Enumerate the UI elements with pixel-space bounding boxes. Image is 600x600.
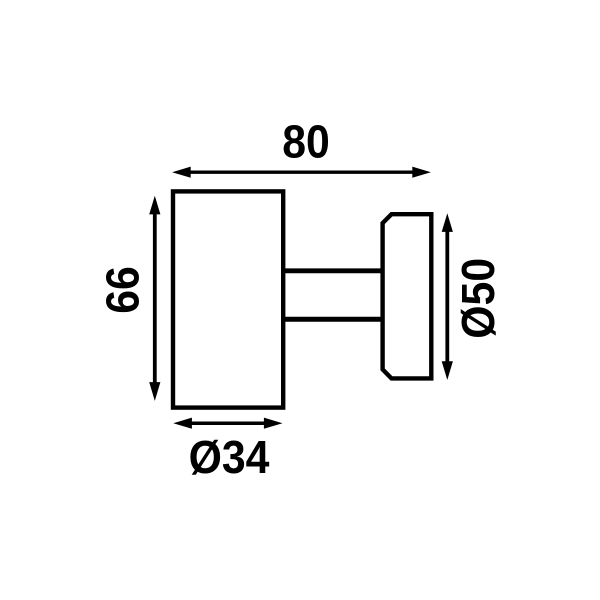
svg-text:Ø34: Ø34	[189, 432, 270, 483]
dimension line Ø34 (bottom)	[173, 418, 282, 429]
arm top wire	[283, 268, 383, 273]
dimension line 66 (left)	[149, 196, 160, 401]
dimension line Ø50 (right)	[442, 213, 453, 380]
svg-text:80: 80	[282, 117, 330, 168]
arm bottom wire	[283, 317, 383, 322]
dimension line 80 (top)	[172, 167, 431, 178]
lamp body (left rectangle)	[173, 191, 283, 407]
svg-text:66: 66	[98, 266, 149, 314]
wall base plate (chamfered rectangle)	[383, 214, 432, 378]
svg-text:Ø50: Ø50	[454, 258, 505, 339]
